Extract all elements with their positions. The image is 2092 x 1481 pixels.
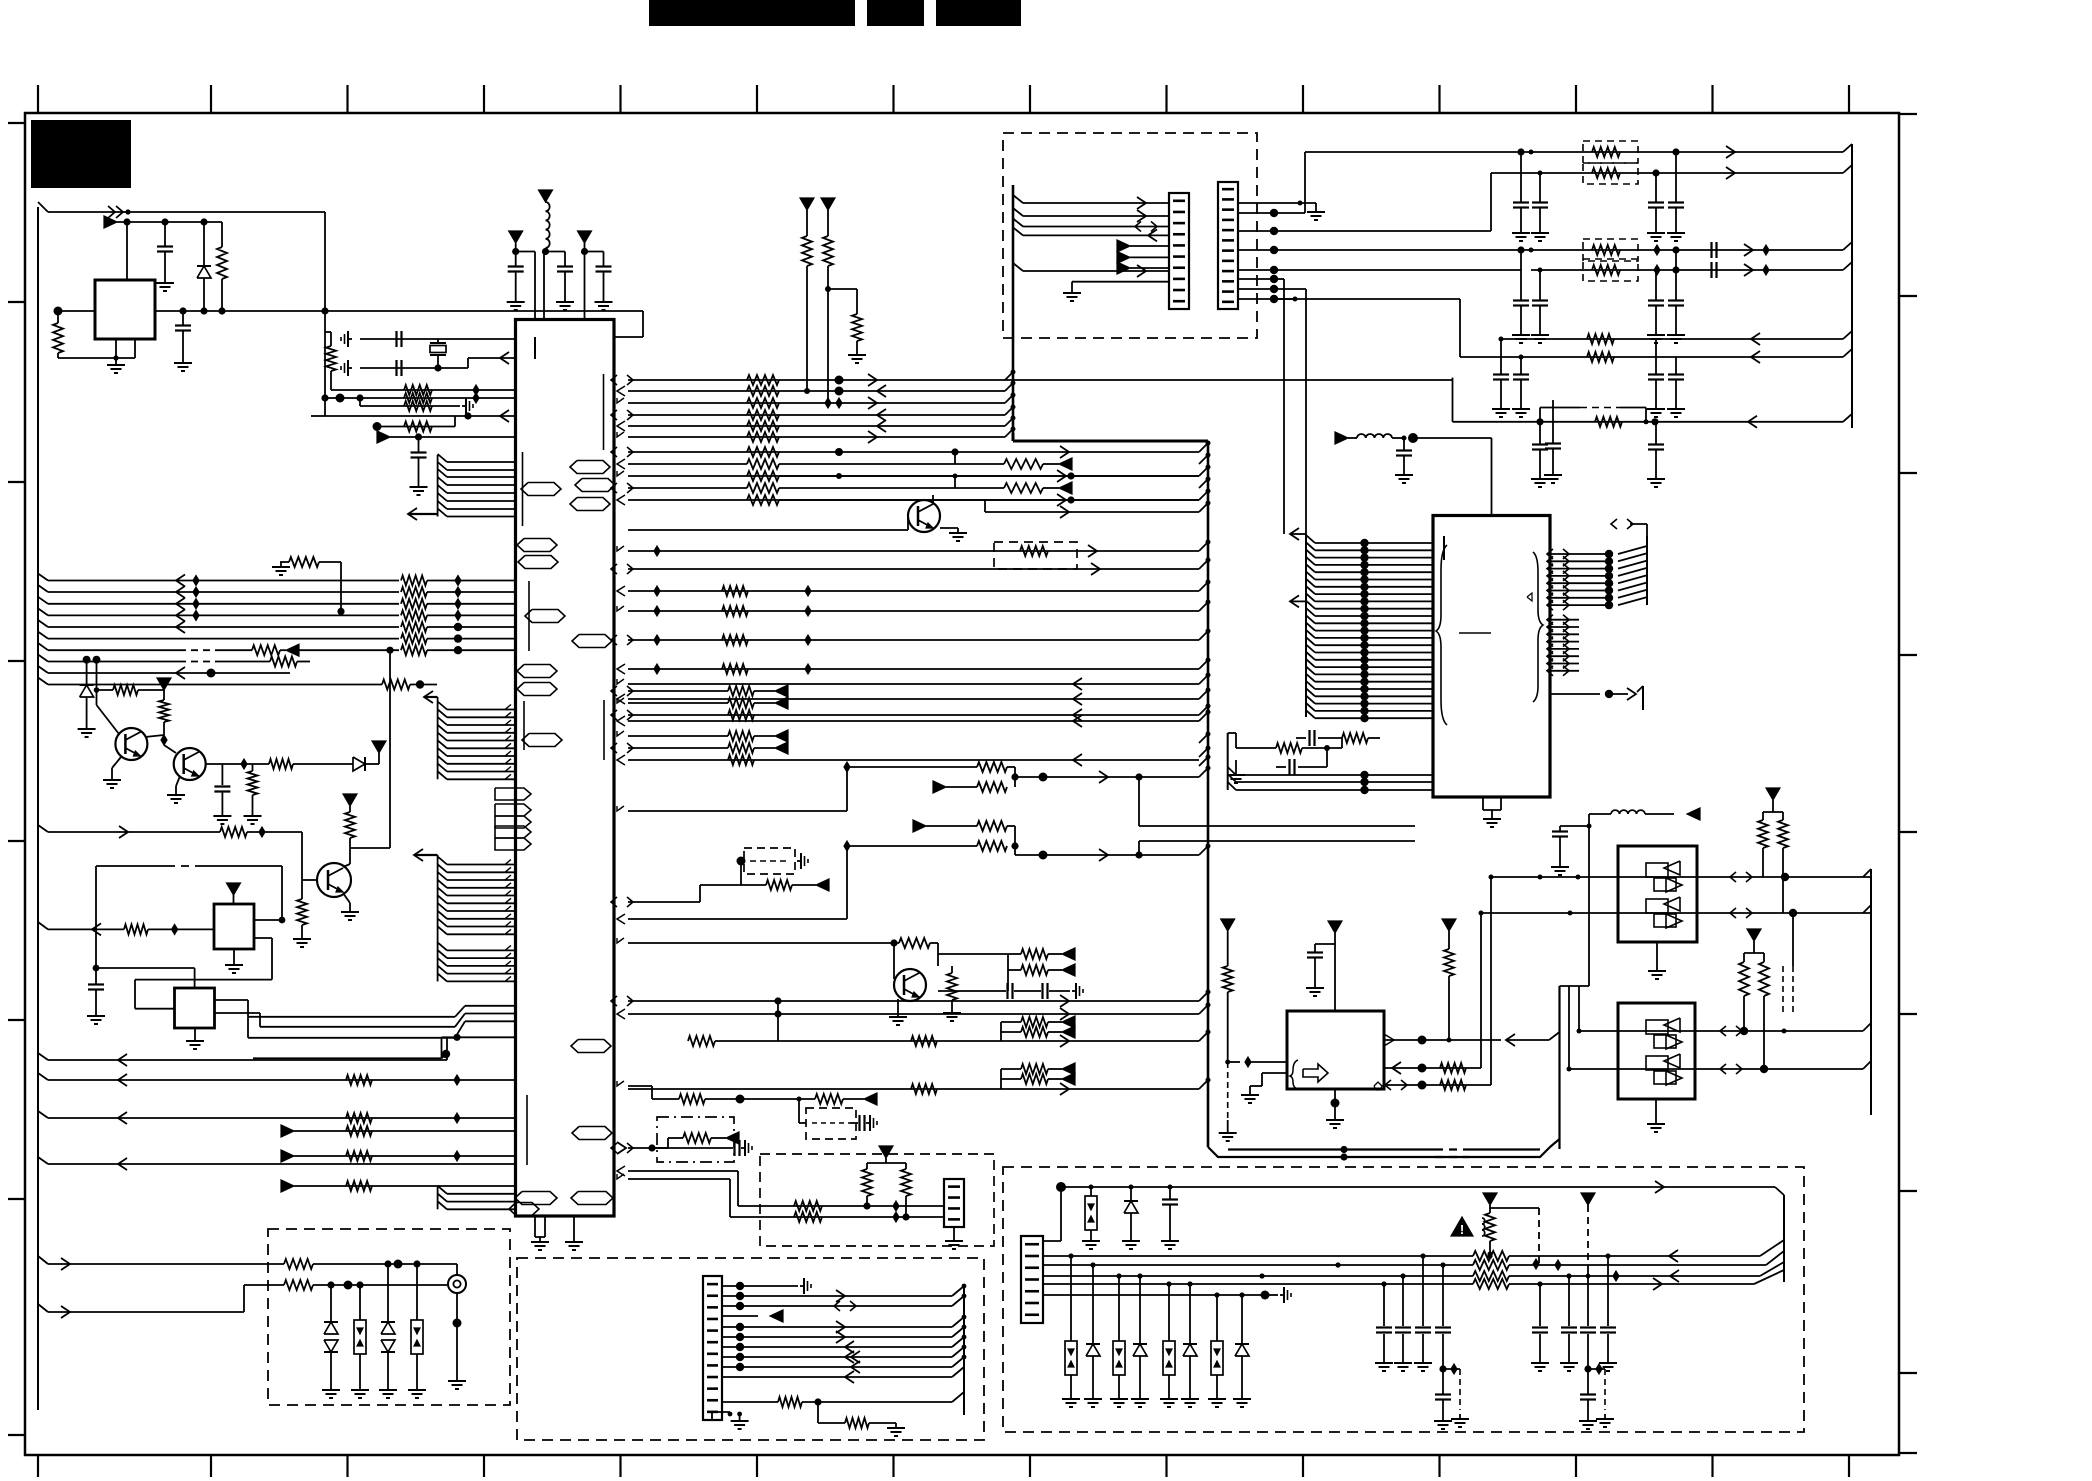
arrow fan748: [775, 742, 788, 754]
wire fanC: [628, 472, 1199, 479]
resistor R-U2l: [1223, 931, 1233, 1062]
arrow W1089: [1060, 1083, 1069, 1095]
power T-D4a: [1483, 1193, 1497, 1205]
arrow fanB: [1059, 458, 1072, 470]
diode D-Q1: [80, 656, 94, 724]
ground U3x: [1227, 760, 1245, 783]
capacitor C-U7: [88, 985, 104, 1012]
arrow W925: [92, 923, 101, 935]
wire U6 right loop: [96, 866, 285, 984]
dot cluster A: [1439, 1364, 1460, 1374]
wire chain1b: [946, 786, 977, 788]
diamond Q1-Q2: [161, 735, 167, 745]
resistor R-703: [728, 698, 775, 708]
dashed box DB2: [268, 1229, 510, 1405]
power T-M2: [821, 198, 835, 210]
wire XTAL1: [360, 338, 516, 340]
wires bundle B1: [447, 462, 516, 517]
U1 pin label hexagon R3: [570, 498, 610, 511]
U3 right brace: [1533, 552, 1543, 702]
dashed resistor box w3: [1583, 239, 1638, 261]
bus x1208 entry hooks: [1199, 441, 1211, 1090]
arrow chain2a: [913, 820, 926, 832]
capacitor C-Q4a: [938, 983, 1013, 999]
U1 inner bracket 5: [603, 700, 605, 760]
transistor Q2: [174, 748, 206, 780]
regulator ground: [107, 360, 125, 373]
ground Q1: [103, 757, 121, 788]
U1 bottom hexagon 3: [509, 1203, 539, 1216]
ground C-A2: [174, 358, 192, 371]
resistor R-1041a: [688, 1036, 715, 1046]
arrow CN1 pin4: [722, 1310, 783, 1322]
wire fanA: [628, 448, 1199, 455]
diamond W1206: [893, 1201, 899, 1211]
IC U3 body: [1433, 516, 1550, 798]
ground U2l: [1219, 1128, 1237, 1141]
wires U3 right out: [1550, 550, 1613, 610]
diode D-D4r1: [1084, 1265, 1102, 1407]
arrow Q4p2: [1062, 964, 1075, 976]
U1 pin label hexagon R6: [572, 1127, 612, 1140]
wire chain1 top: [847, 766, 977, 768]
wire fan943: [628, 942, 899, 944]
ground C-U7: [87, 1011, 105, 1024]
ground R-Q2v: [244, 811, 262, 824]
wire CN1 bottom gnd: [712, 1412, 742, 1420]
arrow XTAL2 pin: [500, 352, 509, 364]
wire W1312: [38, 1285, 284, 1312]
wire DB7 bracket: [867, 1158, 906, 1163]
resistor R-DB7b: [901, 1163, 911, 1221]
redaction bar 1: [649, 0, 855, 26]
bus bottom dashes B: [1435, 1156, 1469, 1158]
capacitor C-w6a: [1512, 357, 1530, 417]
capacitor C-w4s: [1712, 262, 1717, 278]
dash-dot box DB6: [657, 1117, 734, 1162]
ground C-DB5: [866, 1115, 877, 1131]
resistor R-w1: [1592, 147, 1620, 157]
resistor R-grid: [289, 557, 319, 567]
resistor R-1069: [1021, 1064, 1062, 1074]
resistor R-ch2b: [977, 841, 1007, 851]
bus bottom dots: [1340, 1146, 1347, 1161]
wire W1148: [628, 1144, 733, 1151]
resistor R-736: [728, 731, 775, 741]
arrow fanF: [1057, 494, 1066, 506]
U2 arrow glyph: [1303, 1064, 1328, 1082]
wire U3 vcc: [1413, 438, 1492, 516]
diamond W1118: [454, 1113, 460, 1123]
capacitor C-D4v7: [1580, 1270, 1596, 1369]
resistor R-W1080: [346, 1075, 372, 1085]
resistor R-CB: [404, 393, 432, 403]
right ruler tick marks: [1899, 114, 1917, 1453]
wire fan691: [628, 690, 728, 692]
capacitor C-w1b: [1667, 152, 1685, 241]
resistor R-M1: [802, 210, 812, 394]
arrow chain1: [1099, 771, 1108, 783]
U1 pin label hexagon R2: [575, 479, 615, 492]
wire Q3 base drop: [302, 832, 317, 880]
U1 bottom pins ground A: [531, 1216, 549, 1250]
resistor R-U3y: [1342, 733, 1380, 748]
wire W925: [38, 922, 124, 929]
ground CN5: [1063, 282, 1169, 301]
resistor R-1079: [1021, 1074, 1062, 1084]
bus bottom double B: [1435, 1148, 1540, 1150]
wire fan721: [628, 720, 1199, 722]
wire U3c bundle: [1228, 733, 1433, 794]
resistor R-L1r7: [252, 645, 286, 655]
wires U1 fan R1: [628, 380, 1005, 437]
U1 pin label hexagon L4: [525, 610, 565, 623]
resistor R-Q3c: [343, 806, 355, 867]
capacitor C-X1: [397, 331, 402, 347]
resistors bank L1: [401, 576, 516, 644]
resistor R-885: [741, 880, 816, 890]
resistor R-ch2a: [977, 821, 1015, 831]
wire B rail: [117, 218, 222, 225]
U1 inner bracket 2: [528, 581, 530, 651]
ground D-Q1: [78, 724, 96, 737]
wire W1171: [628, 1171, 944, 1206]
bus right vertical x1559: [1550, 986, 1560, 1149]
wire opamp1 in B: [1481, 909, 1871, 917]
wire fanE: [779, 474, 1004, 489]
wire row C-C: [356, 394, 460, 406]
arrow fan569: [1091, 563, 1100, 575]
diamonds DB4 rails: [1555, 1260, 1619, 1281]
arrow CN5 t2: [1117, 251, 1169, 263]
wire V2 node: [512, 243, 535, 255]
ground U2 p5: [1241, 1090, 1259, 1103]
resistor R-A2: [217, 222, 227, 311]
arrow w1: [1726, 146, 1735, 158]
resistor R-U2p2: [1440, 1063, 1466, 1073]
U1 left pin hook marks: [505, 705, 511, 982]
wire W1041: [715, 1001, 1199, 1041]
wire CN6 o6: [1274, 289, 1306, 534]
wire W1179: [628, 1179, 944, 1217]
ground D-D4b: [1122, 1236, 1140, 1249]
U1 right pin edge glyphs: [611, 375, 633, 1179]
wire fan569: [628, 568, 1199, 570]
resistor R-M3: [828, 289, 862, 350]
capacitor C-CF: [411, 437, 427, 482]
wire CN6 gnd: [1238, 201, 1316, 208]
resistor R-N1b: [1778, 812, 1788, 913]
wire CN6 o7: [1274, 297, 1298, 302]
wire fanF: [628, 496, 1199, 503]
diode D-Q2: [353, 757, 365, 771]
connector CN5: [1169, 193, 1189, 309]
resistor R-1206: [794, 1201, 822, 1211]
bus thick vertical x1208: [1207, 441, 1210, 1147]
transistor Q3: [317, 863, 351, 897]
capacitor C-B1: [508, 252, 524, 298]
wire V3 node: [581, 243, 604, 255]
capacitor C-U3b: [1544, 400, 1562, 483]
N2 buffers: [1646, 1018, 1682, 1085]
arrow DB4 rail: [1655, 1181, 1664, 1193]
bus U3a: [1306, 534, 1315, 717]
arrow fan721: [1073, 715, 1082, 727]
bus right x1852: [1843, 144, 1852, 428]
dashed drop x: [1451, 1369, 1469, 1427]
resistor R-U2p3: [1440, 1080, 1466, 1090]
arrows U3 right: [1547, 549, 1569, 610]
arrow fanG: [1060, 506, 1069, 518]
ground J1: [453, 1293, 462, 1376]
resistor R-1285: [284, 1280, 449, 1290]
arrow chain1b: [933, 781, 946, 793]
dashed box DB3: [517, 1258, 984, 1440]
wires CN1 out: [740, 1284, 966, 1367]
U1 pin label hexagon edge1: [495, 788, 531, 800]
capacitor C-Q2: [214, 764, 230, 811]
resistor R-Q2v: [248, 764, 258, 811]
resistor R-fanE: [1004, 483, 1059, 493]
capacitor C-B3: [596, 252, 612, 298]
resistor R-L1r10: [382, 680, 437, 690]
arrows DB4 rails: [1653, 1250, 1679, 1290]
dashed box DB5: [806, 1108, 856, 1139]
U2 brace: [1290, 1060, 1298, 1089]
arrow W1164: [118, 1158, 127, 1170]
capacitor C-N1: [1551, 824, 1592, 876]
resistor R-925: [124, 924, 214, 934]
wire Q3 collector out: [350, 647, 394, 848]
wire U2 p1: [1384, 1036, 1501, 1045]
U3 small glyph: [1527, 593, 1532, 601]
capacitor C-w7a: [1531, 422, 1549, 487]
arrow W1022: [1062, 1016, 1075, 1028]
arrow W885: [816, 879, 829, 891]
ground N1: [1648, 942, 1666, 979]
resistor R-W1131: [346, 1126, 372, 1136]
resistor R-w2: [1592, 168, 1620, 178]
wire opamp2 in B: [1567, 1065, 1864, 1073]
resistor R-611: [722, 606, 748, 616]
bus bundle B2: [438, 697, 447, 779]
wire W885: [628, 861, 741, 902]
arrow bundle B3: [414, 849, 438, 861]
suppressor Z-D4r4: [1208, 1295, 1226, 1407]
wire fan488L: [628, 487, 747, 489]
ground Q4: [889, 999, 907, 1025]
arrow W1032: [1062, 1026, 1075, 1038]
wire row C-E: [373, 416, 456, 431]
arrow DB6: [726, 1132, 739, 1144]
arrow fanA: [1060, 446, 1069, 458]
U1 bottom hexagon 2: [571, 1192, 613, 1205]
arrow U3a bundle: [1290, 528, 1306, 540]
ground D-J3: [379, 1385, 397, 1398]
resistor R-CA: [404, 385, 432, 395]
power T-Q1: [157, 678, 171, 690]
wire U3 aux cluster: [1228, 733, 1330, 751]
wire U3 bus top: [1630, 524, 1647, 536]
wire row C-A: [331, 389, 516, 391]
resistor R-Q4p1: [1008, 949, 1062, 959]
capacitor C-Q4b: [1014, 983, 1048, 999]
wire U2 vcc: [1334, 933, 1336, 1011]
dashed resistor box w2: [1583, 163, 1638, 184]
resistor R-1217: [794, 1212, 822, 1222]
arrow fan703: [775, 697, 788, 709]
wire chain2 fork: [628, 841, 850, 919]
inductor L-U3: [1348, 433, 1418, 443]
resistor R-Q4e: [947, 966, 957, 1008]
bus U3 right: [1618, 536, 1647, 605]
svg-text:!: !: [1460, 1222, 1464, 1237]
wire U2 p3 up: [1489, 875, 1494, 1086]
capacitor C-D4v1: [1375, 1284, 1393, 1371]
U3 inner line: [1459, 632, 1491, 634]
resistor R-Q1t: [97, 685, 165, 695]
arrow w2: [1726, 167, 1735, 179]
resistor R-CE: [404, 422, 432, 432]
capacitor C-w5b: [1647, 339, 1665, 417]
ground C-Q2: [213, 811, 231, 824]
arrow W1080: [118, 1074, 127, 1086]
wire U3 pin mute: [1550, 690, 1628, 698]
ground Q5: [940, 528, 967, 541]
connector CN4: [1021, 1236, 1043, 1323]
wire XTAL2: [360, 358, 516, 372]
ground C-CF: [410, 482, 428, 495]
resistor R-L1r8: [270, 657, 310, 667]
wire chain2a: [926, 825, 977, 827]
ground R-CN1b: [887, 1423, 905, 1436]
wire chain2b: [847, 845, 977, 847]
wire U7 right C: [248, 1017, 516, 1038]
wire fan715: [628, 714, 1199, 716]
wire Q5 collector: [932, 495, 934, 503]
wire fan703: [628, 702, 728, 704]
capacitor C-w2b: [1647, 173, 1665, 241]
arrow w4: [1744, 264, 1769, 276]
thermistor RT1: [1482, 1205, 1539, 1269]
resistor R-D4r1: [1473, 1251, 1760, 1261]
diamond row C-B: [473, 393, 479, 403]
arrow U3b bundle: [1290, 595, 1306, 607]
wires CN4 rails: [1043, 1256, 1473, 1295]
arrow fan684: [1073, 678, 1082, 690]
wire fan591: [628, 586, 1199, 596]
U2 pentagon glyph: [1374, 1082, 1382, 1090]
wire Q2 emitter: [206, 759, 269, 769]
wire L1 row7: [38, 643, 252, 650]
resistor R-CN1b: [818, 1402, 896, 1428]
suppressor Z-J2: [354, 1285, 366, 1385]
U1 pin1 marker: [534, 337, 536, 359]
arrow W1041: [1060, 1035, 1069, 1047]
wire W1080: [38, 1073, 516, 1080]
ground D-J1: [322, 1385, 340, 1398]
resistor R-Q3b: [297, 880, 307, 934]
wire L1 row9: [38, 666, 290, 678]
IC N1 op-amp: [1618, 846, 1697, 942]
wire opamp1 in A: [1491, 873, 1871, 881]
resistor R-1099b: [815, 1094, 864, 1104]
wires bundle B3: [447, 865, 516, 982]
ground U2: [1326, 1115, 1344, 1128]
wire fan640: [628, 635, 1199, 645]
U1 pin label hexagon R5: [571, 1040, 611, 1053]
capacitor C-DB5: [850, 1115, 865, 1131]
arrow U2 p1: [1506, 1032, 1560, 1046]
capacitor C-w5a: [1492, 339, 1510, 417]
ground N2: [1647, 1099, 1665, 1132]
capacitor C-U3x: [1296, 730, 1342, 746]
arrow W1069: [1062, 1063, 1075, 1075]
U1 pin label hexagon L3: [518, 556, 558, 569]
dashed resistor box w1: [1583, 141, 1638, 163]
wire left vertical bus: [37, 207, 39, 1410]
capacitor C-D4v2: [1394, 1276, 1412, 1371]
regulator sub-box: [113, 339, 135, 361]
wire R1 row1 ext: [1005, 379, 1453, 381]
resistor R-1032: [1021, 1027, 1062, 1037]
arrow W1312: [61, 1306, 70, 1318]
wire W1156: [281, 1150, 516, 1162]
U1 pin label hexagon L6: [517, 683, 557, 696]
resistor R-760: [728, 755, 754, 765]
arrow W1079: [1062, 1073, 1075, 1085]
connector CN6: [1218, 182, 1238, 309]
arrow N1 out A: [1730, 872, 1752, 882]
ground CN6: [1307, 207, 1325, 220]
dashed pair verticals: [1783, 913, 1793, 1012]
wire CN6 o3: [1274, 249, 1521, 251]
wire grid res: [280, 562, 345, 615]
ground C-B2: [556, 297, 574, 310]
wire fan699: [628, 698, 1199, 700]
ground Q3: [341, 893, 359, 920]
transistor Q4: [894, 969, 926, 1001]
wire Q1 base drop: [93, 656, 120, 734]
wire T-D4a link: [1490, 1208, 1539, 1265]
wire W1118: [38, 1111, 516, 1118]
hooks DB4 rails: [1754, 1240, 1784, 1284]
resistor R-W1186: [346, 1181, 372, 1191]
ground Z-J4: [408, 1385, 426, 1398]
resistor R-1089: [911, 1084, 937, 1094]
resistor R-1041b: [911, 1036, 937, 1046]
arrow L1 row9: [176, 667, 185, 679]
dashed box DB9: [994, 542, 1077, 569]
ground DB10: [797, 853, 808, 869]
wire fanG: [985, 500, 1199, 512]
chevron arrows A1: [108, 206, 131, 218]
wire U2 p2: [1384, 1064, 1481, 1073]
wire w5: [1499, 337, 1844, 342]
resistor R-832: [220, 827, 302, 837]
U1 pin label hexagon L1: [521, 483, 561, 496]
capacitor C-D4c: [1162, 1187, 1178, 1236]
wire U2 p2 up: [1479, 911, 1484, 1069]
resistor R-w3: [1592, 245, 1620, 255]
ground C-B3: [595, 297, 613, 310]
wire DB5 drop: [799, 1099, 806, 1123]
wire U1 pin VCC2: [543, 252, 545, 320]
capacitor C-w4b: [1647, 270, 1665, 343]
resistor R-Q1v: [159, 690, 169, 735]
ground R-Q3b: [293, 934, 311, 947]
ground Z-J2: [351, 1385, 369, 1398]
